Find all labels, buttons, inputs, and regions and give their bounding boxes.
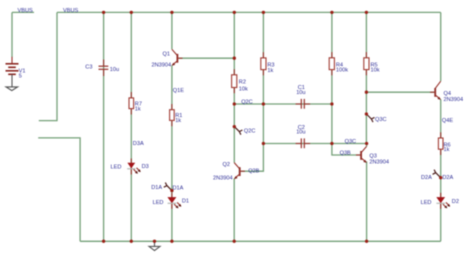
svg-text:Q3C: Q3C [345,139,357,145]
svg-text:Q1E: Q1E [173,88,184,94]
svg-text:D2A: D2A [421,175,432,181]
svg-text:100k: 100k [336,67,348,73]
svg-text:10u: 10u [296,130,305,136]
svg-text:VBUS: VBUS [63,8,79,14]
svg-text:Q2: Q2 [223,162,230,168]
svg-text:Q3B: Q3B [340,151,351,157]
svg-text:2N3904: 2N3904 [444,97,464,103]
svg-text:C3: C3 [85,65,92,71]
svg-text:1k: 1k [135,106,141,112]
svg-text:2N3904: 2N3904 [213,176,233,182]
svg-text:5: 5 [19,73,22,79]
svg-text:D1A: D1A [151,185,162,191]
svg-text:LED: LED [421,200,432,206]
svg-text:D1: D1 [182,199,189,205]
svg-text:Q4E: Q4E [442,118,453,124]
svg-text:Q2C: Q2C [244,129,256,135]
svg-text:2N3904: 2N3904 [369,159,389,165]
svg-text:D2A: D2A [442,175,453,181]
svg-text:LED: LED [111,164,122,170]
svg-text:Q1: Q1 [163,51,170,57]
svg-text:10k: 10k [371,67,380,73]
svg-text:Q2B: Q2B [248,169,259,175]
svg-text:2N3904: 2N3904 [152,62,172,68]
svg-text:VBUS: VBUS [18,8,34,14]
svg-text:D3: D3 [142,164,149,170]
svg-text:1k: 1k [175,118,181,124]
svg-text:R2: R2 [239,80,246,86]
svg-text:LED: LED [153,200,164,206]
svg-text:1k: 1k [267,68,273,74]
svg-text:10u: 10u [296,90,305,96]
svg-text:D2: D2 [452,199,459,205]
svg-text:D1A: D1A [173,185,184,191]
svg-text:10u: 10u [110,67,119,73]
svg-text:10k: 10k [239,86,248,92]
svg-text:D3A: D3A [133,141,144,147]
svg-text:Q2C: Q2C [241,100,253,106]
svg-text:1k: 1k [444,147,450,153]
svg-text:Q3C: Q3C [375,117,387,123]
